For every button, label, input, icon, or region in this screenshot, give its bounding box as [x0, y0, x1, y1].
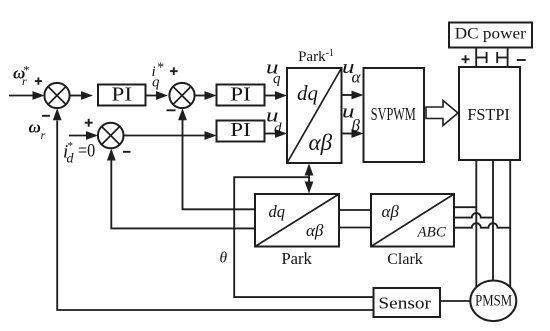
svg-text:ABC: ABC — [417, 225, 447, 241]
svg-text:SVPWM: SVPWM — [371, 104, 416, 124]
svg-text:q: q — [273, 71, 281, 87]
svg-text:Sensor: Sensor — [378, 294, 431, 313]
svg-text:Clark: Clark — [387, 251, 423, 268]
svg-text:*: * — [67, 140, 73, 152]
svg-text:dq: dq — [269, 202, 286, 221]
svg-text:αβ: αβ — [382, 202, 400, 221]
svg-text:q: q — [152, 75, 160, 91]
svg-text:α: α — [352, 68, 362, 87]
svg-text:FSTPI: FSTPI — [467, 105, 510, 124]
svg-text:d: d — [67, 152, 75, 167]
svg-text:θ: θ — [220, 250, 228, 267]
svg-text:Park: Park — [281, 249, 312, 268]
svg-text:=0: =0 — [78, 141, 95, 162]
svg-text:DC power: DC power — [455, 26, 527, 43]
svg-text:αβ: αβ — [306, 221, 324, 240]
svg-text:PI: PI — [112, 84, 133, 106]
svg-text:*: * — [157, 60, 164, 75]
svg-text:r: r — [41, 128, 46, 142]
svg-text:αβ: αβ — [309, 130, 333, 155]
svg-text:β: β — [351, 116, 361, 135]
svg-text:ω: ω — [29, 118, 41, 137]
svg-text:PI: PI — [230, 119, 251, 141]
svg-text:r: r — [22, 74, 27, 88]
svg-text:dq: dq — [297, 81, 319, 105]
svg-text:d: d — [274, 121, 282, 137]
svg-text:PI: PI — [230, 84, 251, 106]
svg-text:PMSM: PMSM — [475, 292, 512, 309]
